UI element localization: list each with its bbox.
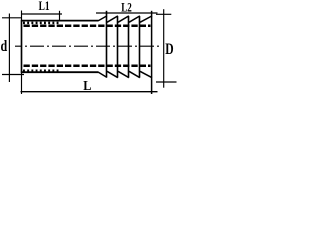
barb 3 vertical edge	[128, 16, 130, 77]
barb 2 vertical edge	[117, 16, 119, 77]
barb 4 top slant	[129, 16, 140, 22]
svg-text:L1: L1	[39, 0, 50, 13]
cylinder top edge	[22, 20, 99, 22]
barb 2 bottom slant	[107, 71, 118, 77]
dimension L1: right extension tick	[59, 11, 61, 21]
barb 3 bottom slant	[118, 71, 129, 77]
dimension d: vertical dimension line	[8, 14, 10, 83]
cylinder bottom edge	[22, 71, 99, 73]
first barb bottom slant	[98, 72, 107, 77]
dimension D: vertical dimension line	[163, 9, 165, 88]
barb 5 vertical edge / end face (also L2 right ext and L right ext)	[151, 11, 153, 94]
cylinder left edge	[21, 20, 23, 73]
svg-text:D: D	[165, 40, 173, 57]
dimension L: dimension line	[21, 91, 158, 93]
svg-text:L2: L2	[121, 0, 132, 14]
barb 5 bottom slant	[140, 71, 152, 77]
dimension L2: dimension line (doubles as D top crossbar)	[96, 12, 158, 14]
knurl bottom row of squares	[23, 70, 59, 72]
barb 2 top slant	[107, 16, 118, 22]
dimension d: top extension crossbar	[2, 17, 22, 19]
barb 5 top slant	[140, 16, 152, 22]
left extension line (shared by L1 and L)	[21, 11, 23, 95]
hidden bore line top (thick dashes)	[24, 24, 151, 27]
dimension L1: dimension line	[21, 13, 62, 15]
dimension d: bottom extension crossbar	[2, 74, 24, 76]
dimension D: bottom crossbar	[156, 81, 177, 83]
dimension D: top crossbar	[156, 13, 171, 15]
hidden bore line bottom (thick dashes)	[24, 65, 151, 68]
barb 4 bottom slant	[129, 71, 140, 77]
first barb top slant	[98, 16, 107, 21]
barb 3 top slant	[118, 16, 129, 22]
center line (dash-dot)	[15, 45, 160, 47]
barb 4 vertical edge	[139, 16, 141, 77]
svg-text:d: d	[1, 39, 8, 56]
svg-text:L: L	[83, 79, 91, 94]
barb 1 vertical edge (also L2 left extension)	[106, 11, 108, 78]
background	[0, 0, 177, 100]
knurl top row of squares	[23, 22, 59, 24]
